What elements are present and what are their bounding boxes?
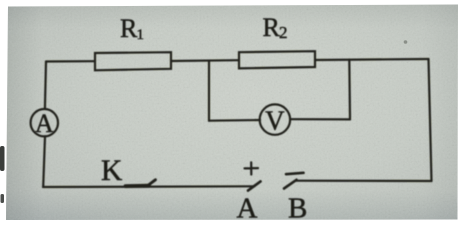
wire voltmeter branch left horizontal [209, 119, 260, 122]
switch K blade [126, 184, 150, 188]
wire between R1 and R2 [171, 59, 239, 62]
resistor R2 [239, 51, 315, 68]
svg-text:A: A [35, 109, 54, 138]
voltmeter [260, 104, 290, 134]
wire left side upper [45, 62, 46, 109]
wire voltmeter branch left vertical [208, 61, 210, 121]
svg-text:K: K [101, 155, 122, 187]
wire bottom-left segment [43, 185, 254, 188]
resistor R1 [95, 52, 171, 70]
wire left side lower [43, 136, 45, 186]
battery positive sign [245, 162, 259, 174]
terminal A slash [248, 181, 261, 190]
wire top-right segment [315, 59, 429, 60]
wire voltmeter branch right vertical [348, 60, 351, 120]
svg-text:1: 1 [137, 27, 145, 43]
svg-text:R: R [120, 14, 138, 43]
wire top-left segment [46, 60, 95, 62]
svg-text:V: V [265, 105, 285, 135]
svg-text:A: A [237, 192, 258, 224]
wire right side [429, 59, 432, 181]
wire bottom-right segment [296, 180, 432, 183]
ammeter [31, 109, 58, 136]
svg-text:R: R [263, 13, 281, 42]
svg-text:B: B [288, 192, 307, 224]
terminal B slash [284, 180, 297, 189]
svg-text:2: 2 [279, 23, 288, 42]
battery negative sign [286, 173, 304, 174]
wire voltmeter branch right horizontal [290, 118, 350, 120]
switch K tip [148, 180, 155, 186]
